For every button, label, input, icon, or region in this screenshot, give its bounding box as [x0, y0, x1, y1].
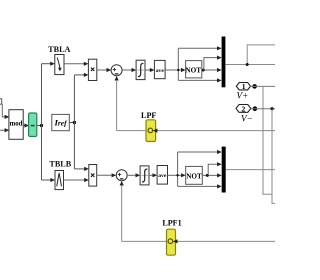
wire TBLA to mult A: [64, 62, 88, 66]
wire mod to green block: [23, 123, 29, 127]
wire ave A to NOT A with branch node: [165, 68, 186, 72]
svg-text:TBLA: TBLA: [48, 45, 70, 54]
block TBLA lookup table: [55, 55, 64, 75]
multiplier B: [89, 165, 97, 187]
wire Iref bus to mult A lower input: [74, 73, 88, 77]
svg-text:ave: ave: [158, 173, 167, 179]
multiplier A: [88, 59, 96, 80]
svg-text:Iref: Iref: [53, 118, 68, 128]
port V- hexagon: [236, 104, 251, 113]
LPF1 feedback wire: [122, 240, 275, 242]
V- feedback vertical: [272, 109, 275, 204]
label V+: [236, 90, 248, 100]
mux A bar: [222, 37, 226, 88]
block LPF1: [167, 229, 178, 255]
NOT B out up branch to mux port2: [208, 162, 222, 175]
summer A: [111, 65, 122, 76]
block ave A: [154, 60, 165, 78]
sum B feedback vertical wire: [121, 185, 123, 241]
node bypass B: [176, 174, 178, 176]
label V-: [241, 113, 253, 123]
node NOT B out: [206, 174, 209, 177]
block mod: [9, 110, 23, 140]
Iref bus vertical wire: [73, 75, 75, 169]
label LPF1: [162, 219, 181, 228]
node V- branch: [270, 107, 273, 110]
wire ave B to NOT B: [168, 173, 186, 177]
node at mux A output branch: [246, 63, 249, 66]
LPF feedback wire: [117, 130, 275, 132]
node V-: [253, 106, 258, 111]
V+ wire right: [250, 85, 275, 87]
label TBLB: [49, 160, 71, 169]
NOT A out up branch to mux port2: [204, 56, 222, 71]
svg-text:V+: V+: [236, 90, 248, 100]
mux A output branch up: [247, 45, 275, 65]
node V+: [252, 84, 257, 89]
block Iref: [52, 114, 70, 130]
wire into mod input 1: [2, 104, 9, 119]
label TBLA: [48, 45, 70, 54]
wire mult A to sum A: [97, 68, 111, 72]
bottom bypass wire A to mux port4: [178, 78, 221, 82]
node NOT A out: [202, 69, 205, 72]
block TBLB lookup table: [55, 171, 64, 190]
wire Iref bus to mult B upper input: [74, 167, 88, 171]
block NOT B: [186, 166, 203, 184]
block ave B: [157, 166, 167, 185]
wire TBLB to mult B: [64, 178, 89, 182]
sum A feedback vertical wire: [116, 80, 118, 131]
summer B: [116, 170, 127, 181]
node on Iref bus: [73, 121, 76, 124]
svg-text:2: 2: [242, 104, 246, 113]
svg-text:mod: mod: [10, 121, 23, 128]
green gain block: [29, 113, 37, 137]
wire NOT A out to mux port3: [202, 68, 222, 72]
block LPF: [146, 120, 157, 142]
top bypass wire B to mux port1: [178, 150, 222, 154]
partial block at left edge: [0, 99, 2, 104]
block NOT A: [185, 61, 201, 78]
wire sum B to sat B: [127, 173, 140, 177]
label LPF: [141, 111, 156, 120]
wire sat A to ave A: [145, 68, 154, 72]
mux A output wire: [225, 64, 275, 66]
wire into mod input 2: [0, 128, 9, 132]
wire to TBLB: [42, 178, 56, 182]
bypass vertical B: [177, 152, 179, 186]
wire sum A to sat A: [122, 68, 136, 72]
bottom bypass wire B to mux port4: [178, 184, 222, 188]
svg-text:LPF1: LPF1: [162, 219, 181, 228]
svg-text:V−: V−: [241, 113, 253, 123]
mux B bar: [222, 147, 226, 193]
bypass vertical A: [177, 48, 179, 80]
wire to TBLA: [42, 62, 55, 66]
saturation block A: [136, 60, 145, 79]
feedback arrow into sum B bottom: [120, 181, 124, 186]
mux B output wire: [226, 169, 275, 171]
wire Iref out to node: [69, 122, 74, 124]
V- wire right: [251, 108, 275, 110]
wire sat B to ave B: [149, 173, 157, 177]
wire green out to node: [37, 125, 42, 127]
saturation block B: [140, 166, 149, 185]
top bypass wire A to mux port1: [178, 46, 221, 50]
svg-text:NOT: NOT: [185, 66, 201, 74]
svg-text:LPF: LPF: [141, 111, 156, 120]
wire mult B to sum B: [97, 173, 117, 177]
svg-text:ave: ave: [156, 68, 165, 74]
port V+ hexagon: [236, 82, 250, 91]
wire NOT B out to mux port3: [202, 173, 221, 177]
node on mod bus: [40, 124, 43, 127]
mod bus vertical wire: [41, 64, 43, 180]
V+ feedback vertical: [263, 86, 272, 194]
feedback arrow into sum A bottom: [115, 76, 119, 81]
svg-text:NOT: NOT: [186, 172, 202, 180]
svg-text:TBLB: TBLB: [49, 160, 71, 169]
node bypass A: [177, 69, 179, 71]
